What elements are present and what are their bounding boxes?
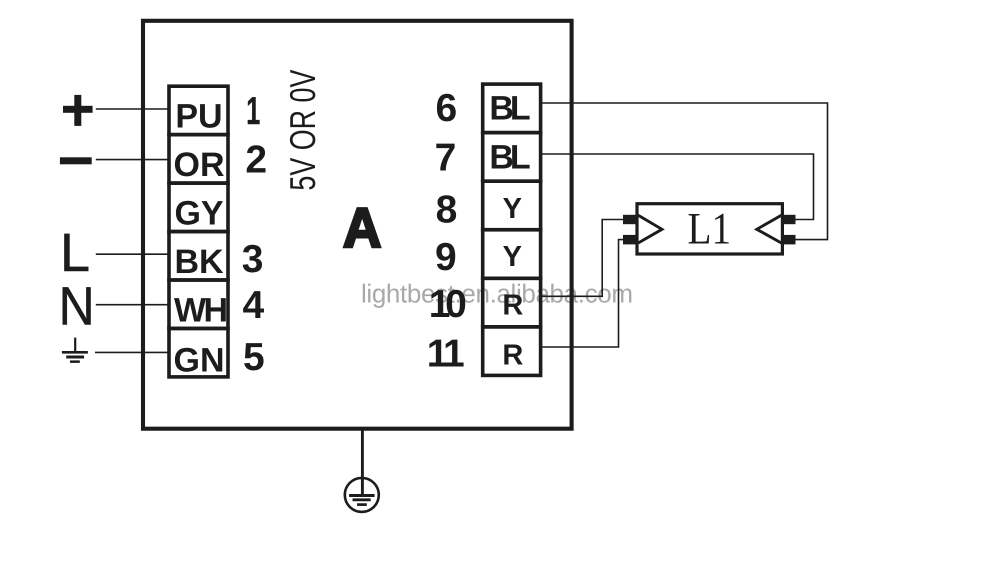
svg-text:6: 6 bbox=[435, 87, 457, 130]
svg-text:3: 3 bbox=[242, 238, 264, 281]
svg-text:GY: GY bbox=[174, 195, 223, 233]
svg-text:4: 4 bbox=[243, 284, 265, 327]
svg-text:1: 1 bbox=[246, 90, 260, 133]
svg-text:L1: L1 bbox=[688, 204, 732, 254]
svg-text:10: 10 bbox=[429, 283, 467, 326]
svg-text:11: 11 bbox=[427, 333, 465, 376]
svg-text:GN: GN bbox=[174, 341, 225, 379]
svg-text:5V OR 0V: 5V OR 0V bbox=[282, 70, 323, 191]
svg-text:7: 7 bbox=[435, 137, 457, 180]
svg-text:5: 5 bbox=[243, 336, 265, 379]
svg-text:OR: OR bbox=[174, 146, 225, 184]
svg-text:BK: BK bbox=[174, 243, 224, 281]
svg-text:R: R bbox=[502, 289, 523, 321]
svg-text:L: L bbox=[60, 223, 90, 283]
svg-text:lightbest.en.alibaba.com: lightbest.en.alibaba.com bbox=[361, 279, 633, 309]
svg-text:BL: BL bbox=[489, 138, 530, 176]
svg-text:2: 2 bbox=[245, 138, 267, 181]
svg-text:WH: WH bbox=[174, 292, 228, 330]
svg-text:BL: BL bbox=[489, 89, 530, 127]
svg-text:8: 8 bbox=[436, 189, 458, 232]
svg-text:Y: Y bbox=[503, 193, 522, 225]
svg-text:A: A bbox=[343, 196, 382, 259]
svg-text:9: 9 bbox=[435, 236, 457, 279]
svg-text:R: R bbox=[502, 339, 523, 371]
svg-text:N: N bbox=[59, 276, 95, 336]
svg-text:Y: Y bbox=[503, 241, 522, 273]
svg-text:PU: PU bbox=[175, 98, 222, 136]
